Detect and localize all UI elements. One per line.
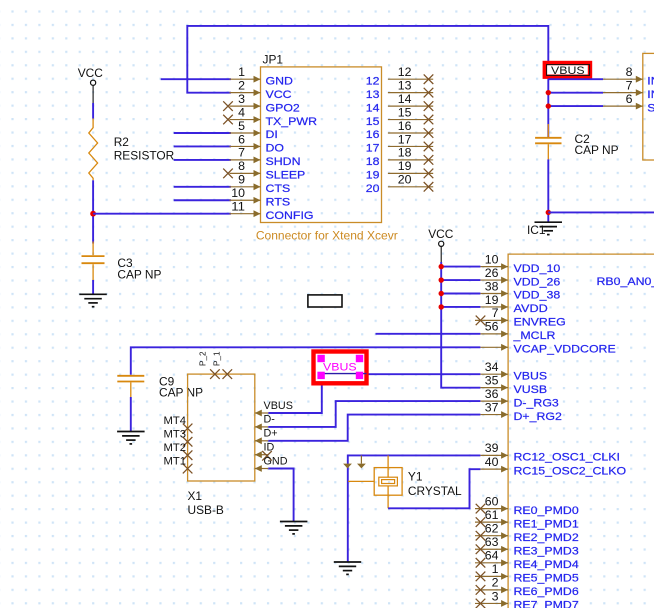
IC U? (top-right, clipped) body: [643, 53, 654, 160]
wire to JP1 pin 5 DI: [174, 132, 231, 134]
svg-text:64: 64: [485, 549, 499, 563]
ground (X1 GND): [280, 522, 308, 534]
svg-text:34: 34: [485, 360, 499, 374]
X1 pin MT4 (no connect): [164, 415, 193, 433]
svg-text:36: 36: [485, 387, 499, 401]
svg-text:14: 14: [366, 102, 380, 114]
svg-text:13: 13: [398, 78, 412, 92]
svg-text:MT3: MT3: [164, 429, 187, 441]
svg-text:18: 18: [366, 156, 380, 168]
junction node: [439, 291, 444, 296]
IC pin 26 VDD_26: [480, 266, 560, 288]
svg-text:X1: X1: [188, 489, 203, 503]
IC pin 34 VBUS: [480, 360, 547, 382]
IC pin 7: [603, 78, 654, 100]
IC pin 2 RE6_PMD6: [475, 576, 579, 598]
svg-text:Y1: Y1: [408, 470, 423, 484]
JP1 pin 4 TX_PWR: [223, 105, 317, 127]
svg-text:IN: IN: [647, 89, 654, 101]
IC pin 38 VDD_38: [480, 279, 560, 301]
svg-text:CRYSTAL: CRYSTAL: [408, 484, 462, 498]
svg-text:9: 9: [238, 173, 245, 187]
svg-text:MT1: MT1: [164, 455, 187, 467]
wire to JP1 pin 10 RTS: [174, 199, 231, 201]
JP1 pin 13 (no connect): [366, 78, 434, 100]
X1 pin P_2 (top, no connect): [198, 351, 219, 379]
JP1 pin 1 GND: [230, 65, 294, 87]
wire X1 D+ to IC D+_RG2: [268, 415, 480, 441]
X1 pin D+: [255, 428, 278, 445]
svg-text:16: 16: [366, 129, 380, 141]
svg-text:SHDN: SHDN: [266, 156, 301, 168]
IC pin 8: [603, 65, 654, 87]
svg-text:12: 12: [366, 75, 380, 87]
svg-text:1: 1: [238, 65, 245, 79]
JP1 pin 3 GPO2: [223, 92, 300, 114]
IC pin 1 RE5_PMD5: [475, 562, 579, 584]
X1 pin D-: [255, 414, 275, 431]
IC pin 40 RC15_OSC2_CLKO: [480, 455, 626, 477]
IC pin 63 RE3_PMD3: [475, 535, 579, 557]
wire VBUS label down to X1 VBUS pin: [268, 374, 322, 413]
svg-text:Connector for Xtend Xcevr: Connector for Xtend Xcevr: [256, 229, 398, 243]
svg-text:CONFIG: CONFIG: [266, 210, 314, 222]
svg-text:RE7_PMD7: RE7_PMD7: [514, 600, 579, 608]
svg-text:ID: ID: [264, 442, 275, 454]
svg-text:GND: GND: [264, 455, 288, 467]
JP1 pin 16 (no connect): [366, 119, 434, 141]
wire junction to JP1 pin 11 CONFIG: [93, 213, 231, 215]
svg-text:MT4: MT4: [164, 415, 187, 427]
IC pin 62 RE2_PMD2: [475, 522, 579, 544]
IC pin 6: [603, 92, 654, 114]
svg-text:VDD_38: VDD_38: [514, 290, 561, 302]
IC pin ? VCAP_VDDCORE: [480, 344, 615, 356]
svg-text:39: 39: [485, 441, 499, 455]
svg-text:13: 13: [366, 89, 380, 101]
svg-text:MT2: MT2: [164, 442, 187, 454]
svg-text:TX_PWR: TX_PWR: [266, 116, 318, 128]
IC pin 39 RC12_OSC1_CLKI: [480, 441, 620, 463]
capacitor C3: [82, 242, 162, 282]
svg-text:62: 62: [485, 522, 499, 536]
svg-text:DI: DI: [266, 129, 278, 141]
IC pin 64 RE4_PMD4: [475, 549, 579, 571]
junction node pin6: [546, 103, 551, 108]
svg-text:VBUS: VBUS: [551, 65, 585, 77]
svg-text:VCAP_VDDCORE: VCAP_VDDCORE: [514, 344, 616, 356]
svg-text:VCC: VCC: [78, 66, 104, 80]
svg-text:JP1: JP1: [263, 53, 284, 67]
svg-text:RESISTOR: RESISTOR: [114, 149, 175, 163]
svg-text:RE4_PMD4: RE4_PMD4: [514, 559, 579, 571]
wire crystal bottom to RC15: [388, 469, 480, 508]
ground (below C3): [79, 294, 107, 306]
directive arrow B: [357, 455, 366, 468]
wire VBUS label to IC pin 8: [548, 78, 603, 80]
junction node (gnd branch): [546, 210, 551, 215]
wire VBUS label to IC pin 34: [322, 373, 481, 375]
net label VBUS (selected, highlighted): [314, 352, 367, 384]
IC pin 35 VUSB: [480, 373, 547, 395]
wire X1 GND to ground: [268, 469, 293, 522]
X1 pin GND: [255, 455, 288, 472]
svg-text:17: 17: [366, 143, 380, 155]
svg-text:60: 60: [485, 494, 499, 508]
wire _MCLR: [376, 333, 481, 335]
IC pin 36 D-_RG3: [480, 387, 558, 409]
svg-text:VUSB: VUSB: [514, 384, 548, 396]
net label VBUS (highlighted, top-right): [545, 63, 590, 77]
svg-text:VBUS: VBUS: [264, 400, 293, 412]
JP1 pin 8 SLEEP: [223, 159, 305, 181]
svg-text:17: 17: [398, 132, 412, 146]
svg-text:RE5_PMD5: RE5_PMD5: [514, 573, 579, 585]
wire to JP1 pin 9 CTS: [174, 186, 231, 188]
svg-text:4: 4: [238, 105, 245, 119]
JP1 pin 2 VCC: [230, 78, 292, 100]
svg-text:2: 2: [238, 78, 245, 92]
svg-text:SLEEP: SLEEP: [266, 170, 306, 182]
svg-text:38: 38: [485, 279, 499, 293]
X1 pin MT3 (no connect): [164, 429, 193, 447]
JP1 pin 10 RTS: [230, 186, 291, 208]
svg-text:RTS: RTS: [266, 196, 291, 208]
svg-text:VDD_10: VDD_10: [514, 263, 561, 275]
svg-text:7: 7: [492, 306, 499, 320]
capacitor C9: [117, 374, 203, 399]
svg-text:P_2: P_2: [198, 351, 207, 366]
connector X1 USB-B body: [188, 374, 255, 517]
wire VCC rail to VUSB: [441, 262, 480, 388]
svg-text:SP: SP: [647, 102, 654, 114]
directive arrow A: [343, 464, 352, 469]
wire to JP1 pin 1 GND: [161, 78, 231, 80]
wire X1 D- to IC D-_RG3: [268, 401, 480, 427]
svg-text:R2: R2: [114, 135, 130, 149]
wire RC12 row to crystal top and left rail: [348, 455, 481, 562]
svg-text:D-: D-: [264, 414, 276, 426]
X1 pin P_1 (top, no connect): [213, 351, 232, 379]
wire C2 to ground: [547, 159, 549, 221]
ground IC1: [527, 222, 562, 237]
wire VCAP_VDDCORE to C9: [131, 347, 481, 375]
svg-text:RE3_PMD3: RE3_PMD3: [514, 545, 579, 557]
svg-text:RE0_PMD0: RE0_PMD0: [514, 505, 579, 517]
svg-text:VDD_26: VDD_26: [514, 276, 561, 288]
IC pin 60 RE0_PMD0: [475, 494, 579, 516]
svg-text:20: 20: [398, 173, 412, 187]
svg-text:IC1: IC1: [527, 223, 546, 237]
svg-text:CAP NP: CAP NP: [159, 386, 203, 400]
JP1 pin 17 (no connect): [366, 132, 434, 154]
svg-text:6: 6: [238, 132, 245, 146]
svg-text:15: 15: [398, 105, 412, 119]
svg-text:VBUS: VBUS: [514, 370, 548, 382]
svg-text:AVDD: AVDD: [514, 303, 548, 315]
svg-text:61: 61: [485, 508, 499, 522]
svg-text:40: 40: [485, 455, 499, 469]
svg-text:8: 8: [238, 159, 245, 173]
svg-text:16: 16: [398, 119, 412, 133]
IC pin 61 RE1_PMD1: [475, 508, 579, 530]
JP1 pin 14 (no connect): [366, 92, 434, 114]
junction node: [439, 304, 444, 309]
svg-text:IN: IN: [647, 75, 654, 87]
svg-text:DO: DO: [266, 143, 285, 155]
IC main (right, clipped) body: [508, 254, 654, 608]
svg-text:5: 5: [238, 119, 245, 133]
svg-text:3: 3: [492, 589, 499, 603]
JP1 pin 18 (no connect): [366, 146, 434, 168]
capacitor C2: [535, 124, 619, 159]
wire VCC to R2: [92, 103, 94, 119]
svg-text:VBUS: VBUS: [323, 361, 357, 373]
svg-text:USB-B: USB-B: [188, 503, 224, 517]
crystal Y1: [348, 455, 462, 508]
svg-text:7: 7: [238, 146, 245, 160]
wire to JP1 pin 6 DO: [174, 145, 231, 147]
JP1 pin 5 DI: [230, 119, 278, 141]
junction node: [439, 277, 444, 282]
X1 pin VBUS: [255, 400, 293, 417]
svg-text:26: 26: [485, 266, 499, 280]
svg-text:RE2_PMD2: RE2_PMD2: [514, 532, 579, 544]
resistor R2: [89, 119, 175, 181]
power VCC (top-left): [78, 66, 104, 103]
IC pin 10 VDD_10: [480, 252, 560, 274]
power VCC (middle): [428, 227, 454, 262]
svg-text:RE6_PMD6: RE6_PMD6: [514, 586, 579, 598]
junction node pin7: [546, 90, 551, 95]
svg-text:CAP NP: CAP NP: [575, 143, 619, 157]
ground (crystal rail): [334, 562, 361, 574]
svg-text:GND: GND: [266, 75, 294, 87]
svg-text:D+_RG2: D+_RG2: [514, 411, 562, 423]
wire C9 to ground: [130, 397, 132, 432]
svg-text:8: 8: [626, 65, 633, 79]
svg-text:P_1: P_1: [213, 351, 222, 366]
svg-text:1: 1: [492, 562, 499, 576]
svg-text:63: 63: [485, 535, 499, 549]
X1 pin MT1 (no connect): [164, 455, 193, 473]
junction node: [439, 264, 444, 269]
blank designator box: [308, 295, 342, 307]
IC pin 19 AVDD: [480, 293, 548, 315]
svg-text:7: 7: [626, 78, 633, 92]
svg-text:_MCLR: _MCLR: [512, 330, 555, 342]
wire vertical to IC pin 6: [548, 105, 603, 107]
wire top bus (JP1 pin2 loop to VBUS net): [187, 26, 548, 137]
svg-text:VCC: VCC: [428, 227, 454, 241]
svg-text:14: 14: [398, 92, 412, 106]
connector JP1 body: [261, 53, 382, 223]
IC pin 3 RE7_PMD7: [475, 589, 579, 608]
svg-text:56: 56: [485, 320, 499, 334]
wire VCC rail to VDD row 3: [441, 293, 480, 295]
svg-text:18: 18: [398, 146, 412, 160]
svg-text:RC12_OSC1_CLKI: RC12_OSC1_CLKI: [514, 452, 620, 464]
junction node (R2/C3/CONFIG): [90, 211, 96, 217]
svg-text:CTS: CTS: [266, 183, 291, 195]
JP1 pin 19 (no connect): [366, 159, 434, 181]
svg-text:35: 35: [485, 373, 499, 387]
JP1 pin 20 (no connect): [366, 173, 434, 195]
JP1 pin 9 CTS: [230, 173, 291, 195]
wire vertical to IC pin 7: [548, 92, 603, 94]
svg-text:20: 20: [366, 183, 380, 195]
JP1 pin 7 SHDN: [230, 146, 301, 168]
IC pin 7 ENVREG: [475, 306, 566, 328]
svg-text:3: 3: [238, 92, 245, 106]
svg-text:11: 11: [231, 200, 245, 214]
wire VCC rail to VDD row 1: [441, 266, 480, 268]
svg-text:ENVREG: ENVREG: [514, 317, 566, 329]
svg-text:19: 19: [398, 159, 412, 173]
svg-text:RC15_OSC2_CLKO: RC15_OSC2_CLKO: [514, 465, 627, 477]
ground (below C9): [117, 432, 145, 444]
wire R2 to junction and C3: [92, 180, 94, 243]
svg-text:D-_RG3: D-_RG3: [514, 397, 559, 409]
svg-text:10: 10: [485, 252, 499, 266]
wire branch right (off-sheet): [548, 211, 654, 213]
svg-text:RB0_AN0_RP0: RB0_AN0_RP0: [597, 276, 654, 288]
svg-text:VCC: VCC: [266, 89, 292, 101]
IC pin 37 D+_RG2: [480, 400, 562, 422]
IC pin 56 _MCLR: [480, 320, 555, 342]
wire to JP1 pin 7 SHDN: [174, 159, 231, 161]
svg-text:37: 37: [485, 400, 499, 414]
X1 pin MT2 (no connect): [164, 442, 193, 460]
svg-text:GPO2: GPO2: [266, 102, 300, 114]
JP1 pin 12 (no connect): [366, 65, 434, 87]
svg-text:D+: D+: [264, 428, 278, 440]
X1 pin ID: [255, 442, 275, 461]
JP1 pin 11 CONFIG: [230, 200, 314, 222]
JP1 pin 15 (no connect): [366, 105, 434, 127]
svg-text:19: 19: [366, 170, 380, 182]
wire VCC rail to VDD row 4: [441, 306, 480, 308]
svg-text:CAP NP: CAP NP: [117, 268, 161, 282]
wire VCC rail to VDD row 2: [441, 279, 480, 281]
svg-text:12: 12: [398, 65, 412, 79]
svg-text:19: 19: [485, 293, 499, 307]
wire C3 to ground: [92, 280, 94, 294]
svg-text:2: 2: [492, 576, 499, 590]
svg-text:15: 15: [366, 116, 380, 128]
svg-text:10: 10: [231, 186, 245, 200]
svg-text:6: 6: [626, 92, 633, 106]
JP1 pin 6 DO: [230, 132, 285, 154]
svg-text:RE1_PMD1: RE1_PMD1: [514, 518, 579, 530]
